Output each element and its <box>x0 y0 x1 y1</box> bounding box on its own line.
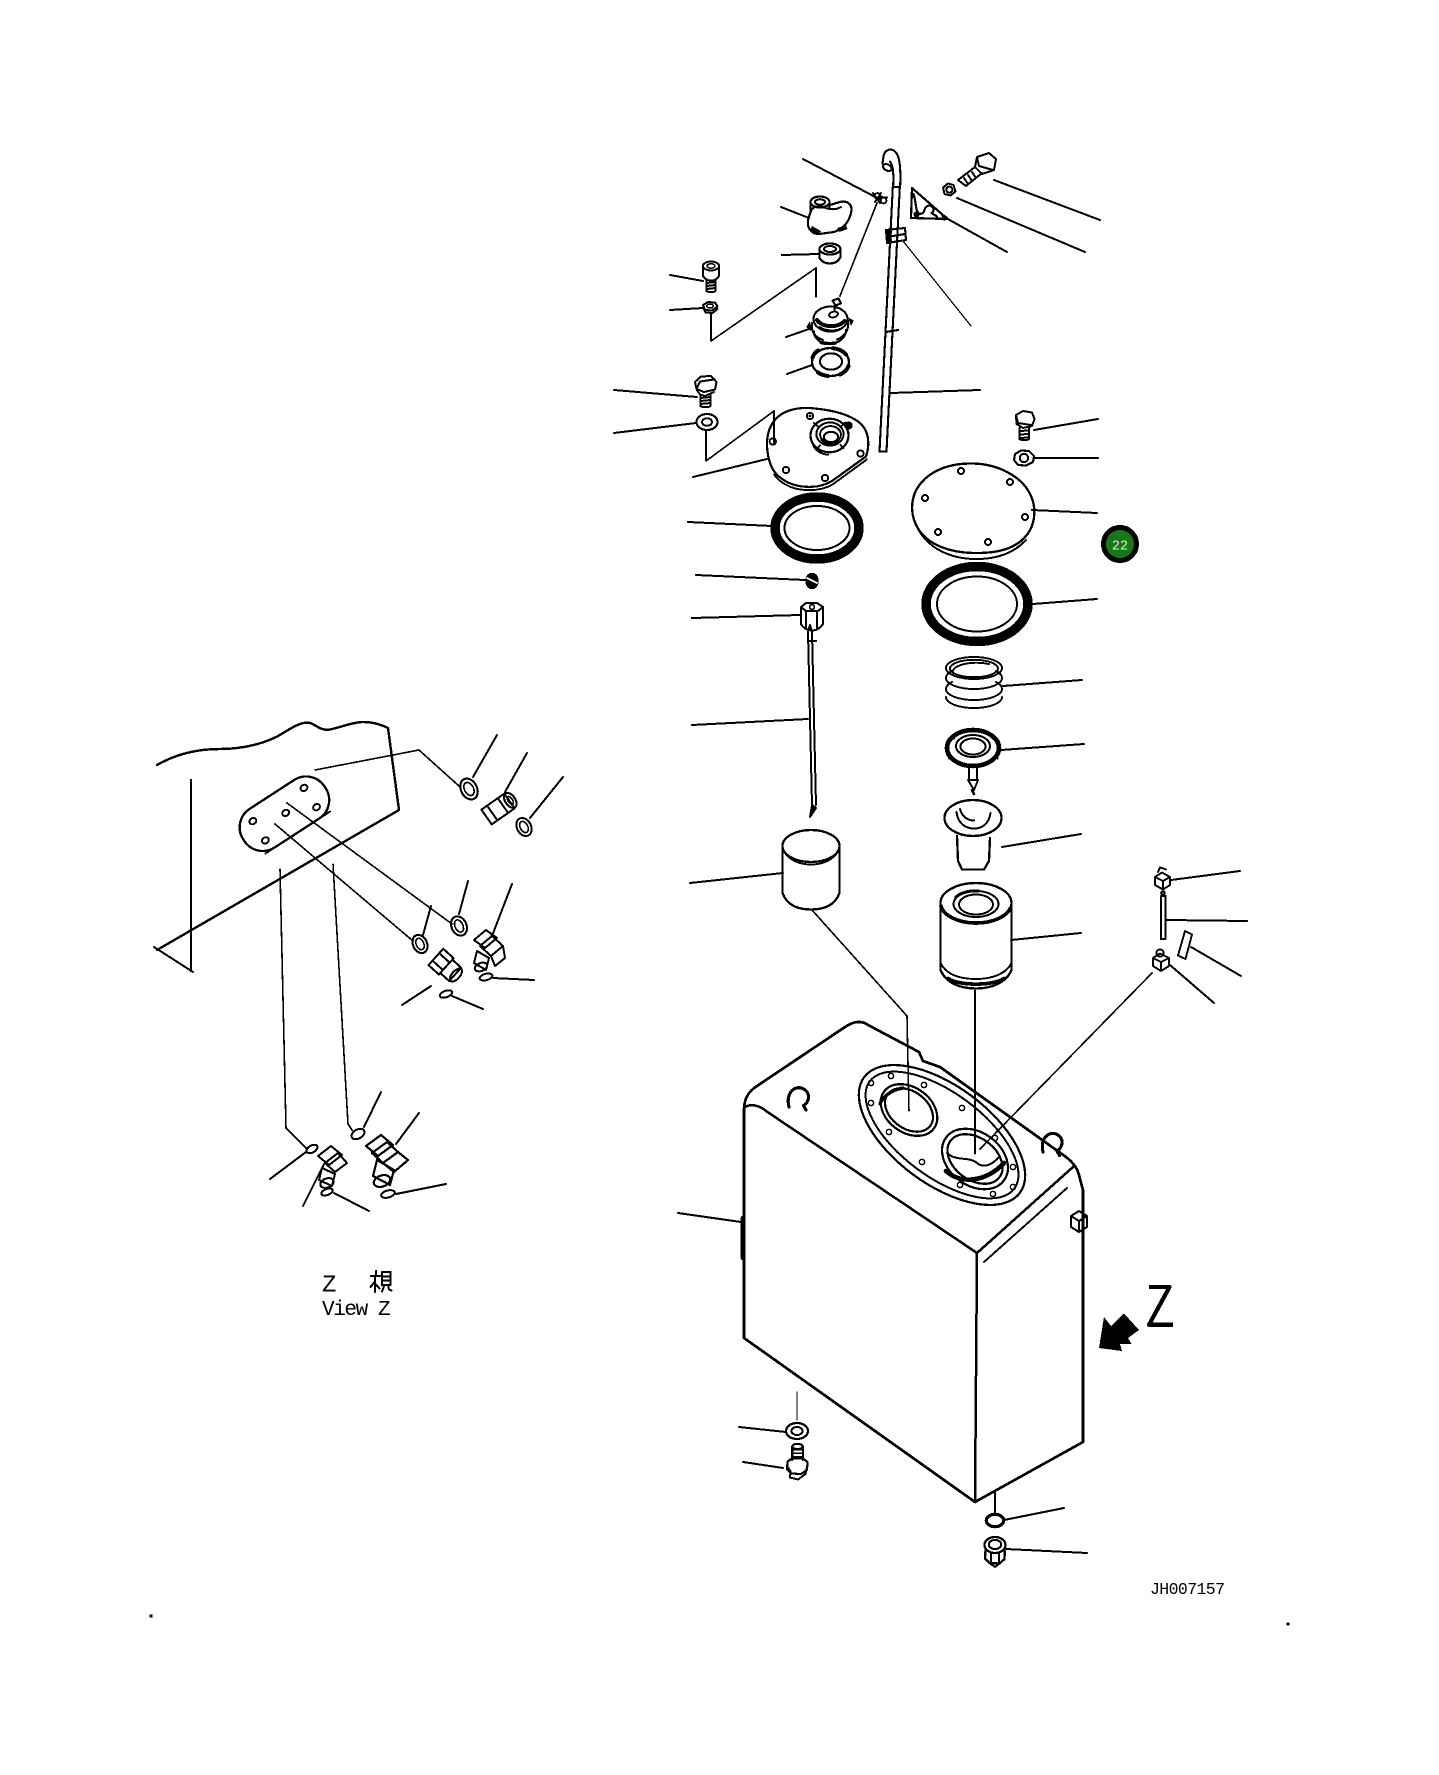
elbow fitting 2 <box>474 930 505 973</box>
o-ring 2b <box>479 972 493 982</box>
tank left edge emphasis <box>741 1218 745 1258</box>
dipstick handle <box>882 150 901 184</box>
o-ring A <box>305 1143 319 1155</box>
tank front-top edge <box>745 1105 977 1253</box>
zigzag washer to cover <box>706 411 774 461</box>
dipstick clamp <box>886 228 906 243</box>
drain bolt <box>787 1444 808 1480</box>
o-ring 3 <box>410 932 431 955</box>
o-ring 3b <box>439 989 453 999</box>
leader to flanged tube <box>1002 834 1081 847</box>
leader to right gasket <box>1033 599 1097 604</box>
elbow B <box>318 1146 347 1190</box>
leader o-ring 3 <box>423 906 431 935</box>
leader to drain bolt <box>743 1462 783 1468</box>
washer left <box>697 414 718 430</box>
leader to bottom o-ring <box>1004 1508 1064 1520</box>
leader o-ring 1 <box>473 735 497 777</box>
right gasket ring <box>926 567 1028 642</box>
nipple fitting 3 <box>428 949 466 986</box>
leader to right filter <box>1011 933 1081 940</box>
leader to seat <box>1001 744 1084 750</box>
leader o-ring 2b <box>493 978 534 980</box>
connector small parts to tank <box>980 973 1152 1149</box>
leader right cover bolt <box>1034 419 1098 430</box>
Z label <box>1149 1287 1171 1325</box>
left opening <box>871 1073 948 1146</box>
collar ring <box>820 244 841 264</box>
svg-text:View Z: View Z <box>322 1299 390 1322</box>
leader o-ring 1b <box>530 777 563 818</box>
leader to drain washer <box>739 1427 786 1432</box>
leader o-ring D <box>364 1092 381 1127</box>
leader to bottom plug <box>1006 1549 1087 1553</box>
right lifting hook <box>1042 1133 1062 1155</box>
zigzag nut to cap <box>711 268 816 341</box>
mounting plate <box>231 768 337 859</box>
leader line to clip <box>803 159 881 200</box>
leader elbow B <box>303 1164 324 1206</box>
leader to socket bolt <box>670 275 703 281</box>
connector plate to fitting 2 <box>287 803 452 924</box>
connector right filter to tank <box>974 990 976 1154</box>
leader to nut <box>670 308 703 310</box>
leader elbow C <box>396 1113 419 1144</box>
small plate <box>1178 931 1192 959</box>
filler neck on cover <box>811 419 849 453</box>
svg-text:Z: Z <box>322 1273 336 1300</box>
o-ring 2 <box>448 914 470 938</box>
leader to right cover <box>1032 510 1097 513</box>
bottom drain plug <box>985 1537 1006 1567</box>
right cover plate <box>912 463 1034 559</box>
right opening thick arc <box>946 1163 1004 1180</box>
leader to lock ring <box>787 365 812 374</box>
connector to bottom o-ring <box>994 1492 996 1513</box>
connector filter to tank <box>812 910 909 1111</box>
leader to clamp <box>1171 871 1240 880</box>
connector plate to fitting 1 <box>315 750 459 786</box>
lock ring <box>812 348 849 376</box>
side plug cube <box>1071 1211 1087 1232</box>
leader right cover washer <box>1035 457 1098 459</box>
wire clip <box>873 193 887 203</box>
dipstick tube <box>880 183 901 452</box>
right opening <box>930 1116 1019 1201</box>
leader to breather cap <box>781 207 809 218</box>
flange bolt holes <box>868 1073 1015 1196</box>
leader to hex bolt <box>614 390 697 397</box>
leader from clamp <box>903 241 971 326</box>
leader to left filter <box>690 873 783 883</box>
o-ring Bb <box>320 1187 333 1197</box>
o-ring Cb <box>380 1189 395 1199</box>
nipple fitting 1 <box>481 790 519 824</box>
seat ring <box>947 730 999 766</box>
bolt top right <box>958 153 996 186</box>
leader to tube <box>891 390 980 393</box>
leader o-ring Cb <box>396 1184 446 1194</box>
leader to spring <box>1003 680 1082 686</box>
leader fitting 3 <box>402 986 431 1005</box>
connector plate to fitting 3 <box>275 824 413 941</box>
socket head bolt <box>703 262 719 293</box>
tank body silhouette <box>744 1022 1083 1502</box>
tank right-face seam <box>984 1188 1067 1262</box>
left gasket ring <box>775 497 859 559</box>
right filter element <box>941 883 1012 989</box>
svg-text:JH007157: JH007157 <box>1150 1580 1224 1599</box>
rubber plug <box>806 574 818 589</box>
flanged tube <box>945 800 1002 870</box>
mounting bracket <box>911 188 948 222</box>
leader to tank <box>678 1213 741 1222</box>
left lifting hook <box>788 1088 808 1110</box>
thin line clip to filler cap <box>840 203 877 296</box>
hex coupling <box>801 603 823 631</box>
leader to small plate <box>1191 947 1241 976</box>
green badge 22 <box>1104 528 1137 561</box>
valve pin <box>968 765 978 794</box>
leader to rod <box>692 719 808 725</box>
breather cap assembly <box>808 197 852 236</box>
leader from bracket <box>946 218 1007 252</box>
tank right-face top edge <box>977 1167 1073 1253</box>
leader bolt TR <box>994 180 1100 220</box>
Z view arrow <box>1099 1314 1139 1352</box>
leader to washer <box>614 423 696 433</box>
leader to plug <box>696 575 805 580</box>
center rod <box>808 625 816 817</box>
leader to small elbow <box>1170 965 1214 1003</box>
leader o-ring Bb <box>334 1193 369 1211</box>
right cover bolt <box>1016 411 1035 440</box>
leader o-ring A <box>270 1152 306 1179</box>
connector line L1 <box>280 869 307 1149</box>
o-ring 1 <box>457 776 481 803</box>
leader to filler cap <box>786 328 812 337</box>
elbow C <box>366 1135 408 1189</box>
clamp small <box>1155 868 1170 890</box>
leader fitting 1 <box>505 753 527 792</box>
leader to coupling <box>692 615 800 618</box>
leader washer TR <box>957 198 1085 252</box>
o-ring 1b <box>513 815 534 838</box>
kanji 視 <box>371 1271 392 1292</box>
leader elbow 2 <box>492 884 512 936</box>
o-ring D <box>350 1127 367 1142</box>
left filter cartridge <box>783 830 840 910</box>
tank front-right edge <box>975 1253 977 1502</box>
leader to small rod <box>1166 920 1247 921</box>
bottom o-ring <box>986 1514 1003 1526</box>
drain washer <box>796 1392 798 1420</box>
svg-text:22: 22 <box>1112 540 1128 555</box>
leader o-ring 3b <box>452 996 483 1009</box>
wall panel <box>154 722 399 972</box>
leader to left cover <box>693 459 767 477</box>
hex bolt left <box>695 376 717 407</box>
hex nut small <box>703 302 718 313</box>
leader to collar <box>782 254 819 255</box>
squiggle hose in right opening <box>947 1153 999 1166</box>
stray dot right <box>1287 1623 1290 1626</box>
leader to left gasket <box>688 522 772 526</box>
connector line L2 <box>333 864 352 1130</box>
right cover washer <box>1014 451 1034 466</box>
small elbow fitting <box>1153 949 1169 971</box>
filler cap <box>806 299 854 344</box>
left cover plate <box>767 408 868 490</box>
spring <box>946 657 1002 708</box>
top flange oval <box>835 1038 1049 1232</box>
washer top right <box>943 184 956 196</box>
leader o-ring 2 <box>459 881 468 914</box>
stray dot left <box>149 1614 152 1617</box>
small rod <box>1161 891 1166 939</box>
